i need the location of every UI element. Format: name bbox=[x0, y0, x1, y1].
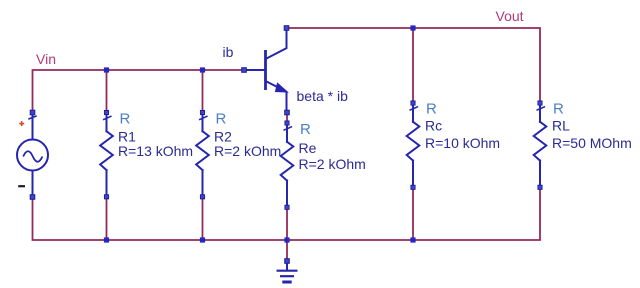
svg-text:R: R bbox=[553, 101, 564, 118]
svg-text:ib: ib bbox=[223, 44, 234, 60]
svg-text:R=50 MOhm: R=50 MOhm bbox=[552, 135, 632, 151]
svg-text:Vin: Vin bbox=[36, 51, 56, 67]
svg-text:R: R bbox=[300, 121, 311, 138]
svg-text:R: R bbox=[120, 111, 131, 128]
svg-text:Vout: Vout bbox=[496, 8, 524, 24]
svg-text:R=2 kOhm: R=2 kOhm bbox=[214, 143, 281, 159]
svg-text:RL: RL bbox=[552, 118, 570, 134]
svg-text:Rc: Rc bbox=[425, 118, 442, 134]
svg-text:beta * ib: beta * ib bbox=[297, 88, 349, 104]
svg-text:R=2 kOhm: R=2 kOhm bbox=[299, 156, 366, 172]
svg-text:R2: R2 bbox=[214, 128, 232, 144]
svg-text:R=10 kOhm: R=10 kOhm bbox=[425, 135, 500, 151]
svg-text:R1: R1 bbox=[118, 128, 136, 144]
svg-text:R=13 kOhm: R=13 kOhm bbox=[118, 143, 193, 159]
svg-text:Re: Re bbox=[299, 140, 317, 156]
svg-text:R: R bbox=[426, 101, 437, 118]
svg-text:R: R bbox=[216, 111, 227, 128]
